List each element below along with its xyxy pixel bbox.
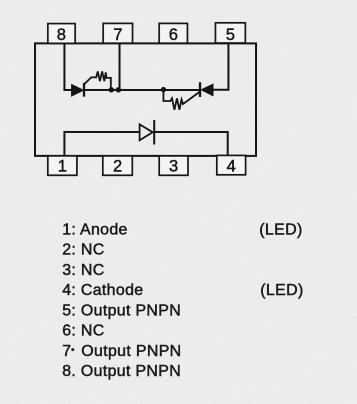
svg-text:1: Anode: 1: Anode	[62, 221, 128, 238]
pin 3 box	[159, 156, 188, 176]
wire: pin 1 up to LED anode	[64, 132, 139, 156]
junction: R1 lead to cathode bus	[109, 87, 114, 92]
pin 2 box	[103, 156, 133, 176]
svg-text:8. Output PNPN: 8. Output PNPN	[62, 363, 181, 380]
svg-text:6: NC: 6: NC	[62, 323, 104, 340]
LED D1 cathode bar	[153, 120, 155, 144]
svg-text:5: Output PNPN: 5: Output PNPN	[62, 302, 181, 319]
svg-text:5: 5	[226, 26, 235, 44]
pin 4 box	[217, 155, 246, 175]
resistor R2 (Q2 gate-cathode)	[163, 90, 200, 110]
svg-text:(LED): (LED)	[259, 221, 302, 238]
thyristor Q2 (output PNPN, pins 5-7)	[200, 82, 213, 97]
svg-text:4: 4	[227, 158, 236, 176]
resistor R1 (Q1 gate-cathode)	[84, 71, 110, 88]
svg-text:3: NC: 3: NC	[62, 262, 104, 279]
IC package body outline	[35, 43, 256, 156]
svg-text:1: 1	[58, 157, 67, 175]
svg-text:6: 6	[169, 26, 178, 44]
junction: pin 7 wire to cathode bus	[116, 87, 121, 92]
svg-text:3: 3	[169, 157, 178, 175]
svg-text:(LED): (LED)	[260, 282, 303, 299]
wire: pin 5 down to thyristor Q2 anode	[212, 43, 228, 89]
junction: R2 tap on cathode bus	[161, 87, 166, 92]
wire: pin 7 down to cathode bus	[119, 43, 121, 90]
svg-text:8: 8	[57, 26, 66, 44]
pin 6 box	[159, 23, 187, 44]
LED D1 triangle (anode, pins 1-4)	[140, 124, 153, 140]
svg-text:2: NC: 2: NC	[62, 242, 104, 259]
pin 7 box	[103, 23, 132, 44]
svg-text:7: 7	[62, 343, 71, 360]
wire: pin 8 down to thyristor Q1 anode	[64, 43, 72, 90]
svg-text:4: Cathode: 4: Cathode	[62, 282, 143, 299]
wire: cathode bus between Q1 and Q2	[84, 89, 200, 91]
svg-text:Output PNPN: Output PNPN	[81, 343, 181, 360]
svg-text:7: 7	[113, 26, 122, 44]
wire: LED cathode to pin 4	[154, 132, 228, 155]
thyristor Q1 (output PNPN, pins 8-7)	[72, 83, 84, 97]
svg-text:2: 2	[113, 157, 122, 175]
pin 5 box	[215, 23, 245, 44]
pin 1 box	[48, 156, 77, 176]
pin 8 box	[48, 24, 75, 45]
